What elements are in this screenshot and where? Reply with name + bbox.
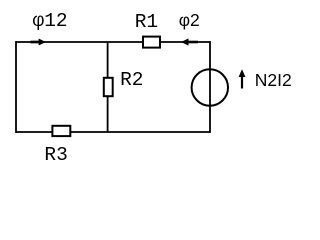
label phi2 [179,12,200,30]
current arrow left (under phi2) [188,41,198,44]
current arrow right (under phi12) [31,41,40,44]
wire middle branch [107,42,109,132]
label R1 [135,13,158,33]
current source N2I2 circle [192,69,228,105]
label R3 [44,146,67,166]
label R2 [120,71,143,91]
resistor R1 [143,37,160,48]
wire left [15,41,17,133]
resistor R2 [104,78,113,96]
wire bottom [16,131,210,133]
resistor R3 [52,126,70,136]
wire right [209,41,211,133]
wire top (node 1 to node 2) [16,41,210,43]
current source direction arrow (up) [241,76,243,89]
label phi12 [33,12,68,32]
label N2I2 [255,72,292,90]
